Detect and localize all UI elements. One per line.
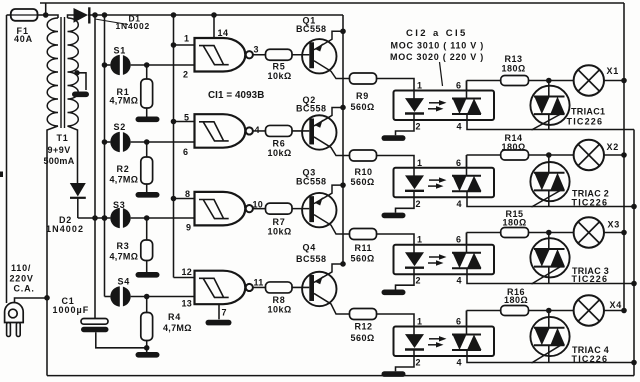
svg-text:12: 12 (182, 267, 193, 277)
svg-text:5: 5 (184, 113, 190, 123)
svg-text:4: 4 (255, 125, 261, 135)
svg-text:S4: S4 (118, 277, 131, 287)
svg-text:7: 7 (222, 308, 227, 318)
svg-text:S1: S1 (114, 46, 127, 56)
svg-text:TRIAC1: TRIAC1 (571, 107, 605, 117)
svg-text:4,7MΩ: 4,7MΩ (110, 252, 139, 262)
svg-text:11: 11 (254, 278, 264, 288)
svg-text:R2: R2 (117, 164, 130, 174)
svg-text:1000µF: 1000µF (53, 305, 90, 315)
svg-text:1: 1 (184, 34, 190, 44)
svg-text:10kΩ: 10kΩ (268, 71, 292, 81)
svg-text:MOC 3010 ( 110 V ): MOC 3010 ( 110 V ) (391, 41, 485, 51)
svg-text:R11: R11 (355, 243, 373, 253)
svg-text:6: 6 (456, 81, 462, 91)
svg-text:6: 6 (456, 317, 462, 327)
svg-text:TIC226: TIC226 (572, 274, 609, 284)
svg-text:10: 10 (253, 200, 264, 210)
svg-text:TIC226: TIC226 (572, 354, 609, 364)
svg-text:BC558: BC558 (296, 254, 327, 264)
svg-text:560Ω: 560Ω (351, 102, 375, 112)
svg-text:2: 2 (416, 199, 422, 209)
svg-text:13: 13 (182, 299, 193, 309)
svg-text:2: 2 (183, 70, 189, 80)
svg-text:2: 2 (416, 276, 422, 286)
svg-text:10kΩ: 10kΩ (268, 148, 292, 158)
svg-text:S2: S2 (114, 122, 127, 132)
svg-text:2: 2 (416, 122, 422, 132)
svg-text:6: 6 (456, 235, 462, 245)
svg-text:10kΩ: 10kΩ (268, 305, 292, 315)
svg-text:10kΩ: 10kΩ (268, 227, 292, 237)
svg-text:560Ω: 560Ω (351, 333, 375, 343)
svg-text:9+9V: 9+9V (48, 145, 71, 155)
svg-text:TIC226: TIC226 (567, 117, 604, 127)
svg-text:C.A.: C.A. (14, 284, 35, 294)
svg-text:R3: R3 (117, 241, 130, 251)
svg-text:1N4002: 1N4002 (116, 21, 151, 31)
svg-text:2: 2 (416, 358, 422, 368)
svg-text:R12: R12 (355, 322, 373, 332)
svg-text:8: 8 (185, 189, 191, 199)
svg-text:1: 1 (417, 81, 423, 91)
svg-text:X2: X2 (607, 142, 620, 152)
svg-text:1: 1 (417, 158, 423, 168)
svg-text:180Ω: 180Ω (504, 295, 528, 305)
svg-text:BC558: BC558 (296, 104, 327, 114)
svg-text:500mA: 500mA (44, 156, 75, 166)
svg-text:R10: R10 (355, 167, 373, 177)
svg-text:1N4002: 1N4002 (46, 224, 84, 234)
svg-text:1: 1 (417, 235, 423, 245)
svg-text:T1: T1 (57, 133, 69, 143)
svg-text:4: 4 (457, 122, 463, 132)
svg-text:CI2 a CI5: CI2 a CI5 (406, 28, 468, 39)
svg-text:R8: R8 (273, 295, 286, 305)
svg-text:3: 3 (254, 45, 260, 55)
svg-text:S3: S3 (113, 200, 126, 210)
svg-text:R9: R9 (356, 91, 369, 101)
svg-text:CI1 = 4093B: CI1 = 4093B (208, 90, 264, 101)
svg-text:6: 6 (183, 147, 189, 157)
svg-text:R6: R6 (273, 139, 286, 149)
svg-text:R4: R4 (168, 312, 181, 322)
svg-text:110/: 110/ (11, 263, 31, 273)
svg-text:BC558: BC558 (296, 24, 327, 34)
svg-text:TIC226: TIC226 (572, 198, 609, 208)
svg-text:180Ω: 180Ω (502, 64, 526, 74)
svg-text:4,7MΩ: 4,7MΩ (163, 323, 192, 333)
svg-text:560Ω: 560Ω (351, 254, 375, 264)
svg-text:4,7MΩ: 4,7MΩ (110, 175, 139, 185)
svg-text:560Ω: 560Ω (351, 177, 375, 187)
svg-text:R5: R5 (273, 62, 286, 72)
svg-text:X3: X3 (608, 220, 621, 230)
svg-text:MOC 3020 ( 220 V ): MOC 3020 ( 220 V ) (390, 52, 484, 62)
svg-text:9: 9 (186, 223, 192, 233)
svg-text:4: 4 (457, 199, 463, 209)
svg-text:1: 1 (417, 317, 423, 327)
svg-text:X1: X1 (607, 66, 620, 76)
svg-text:X4: X4 (610, 300, 623, 310)
svg-text:40A: 40A (14, 34, 33, 44)
svg-text:6: 6 (456, 158, 462, 168)
svg-text:R13: R13 (505, 54, 523, 64)
svg-text:220V: 220V (10, 274, 34, 284)
svg-text:180Ω: 180Ω (502, 142, 526, 152)
svg-text:14: 14 (218, 28, 229, 38)
svg-text:R7: R7 (273, 217, 286, 227)
svg-text:Q4: Q4 (303, 243, 317, 253)
svg-text:4: 4 (457, 276, 463, 286)
svg-text:180Ω: 180Ω (503, 218, 527, 228)
svg-text:4,7MΩ: 4,7MΩ (110, 96, 139, 106)
svg-text:BC558: BC558 (296, 177, 327, 187)
svg-text:4: 4 (457, 358, 463, 368)
